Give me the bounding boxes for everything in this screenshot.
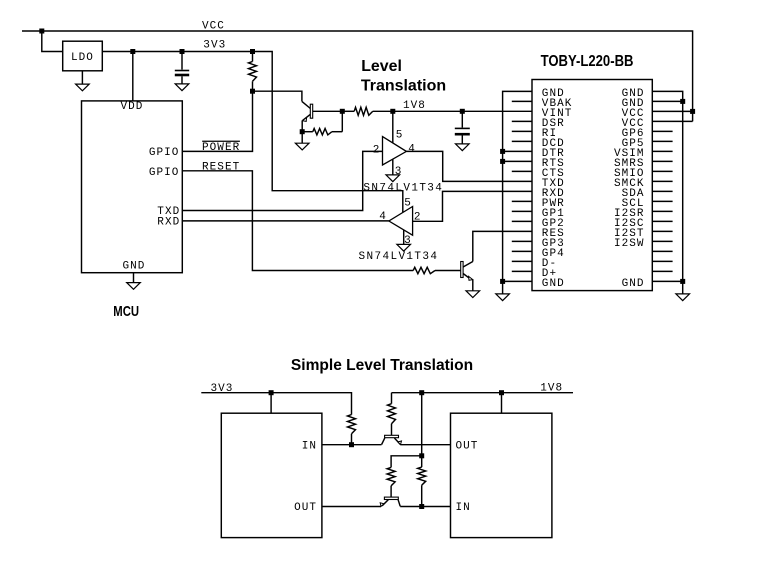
ground under U1: [386, 175, 400, 182]
wire OUT 1V8 side: [401, 444, 451, 446]
wire R6 top link: [392, 392, 422, 394]
svg-text:VDD: VDD: [121, 101, 143, 113]
wire U1 output to TOBY TXD: [406, 151, 532, 181]
wire 1V8 rail bottom: [422, 392, 573, 394]
wire MCU TXD to U1 input: [182, 151, 382, 210]
pin left 14 GP2 stub: [512, 220, 532, 222]
wire U2 pin3 ground lead: [403, 230, 405, 245]
wire TOBY RXD to U2 input: [413, 191, 532, 221]
wire VCC rail: [22, 31, 693, 121]
wire 1V8 rail: [393, 110, 532, 112]
wire U1 pin5 supply: [392, 111, 394, 143]
wire VCC pin4: [652, 120, 692, 122]
wire RESET net: [182, 171, 413, 271]
wire Q1 base: [253, 91, 302, 101]
wire collector to R2: [341, 111, 343, 131]
pin right 5 stub: [652, 130, 672, 132]
pin left 13 GP1 stub: [512, 210, 532, 212]
wire RTS to bus: [503, 160, 532, 162]
svg-text:GND: GND: [123, 260, 145, 272]
wire VDD drop: [132, 52, 134, 101]
transistor Q3: [385, 435, 399, 437]
resistor R7: [391, 456, 422, 468]
svg-text:5: 5: [396, 130, 403, 142]
svg-text:OUT: OUT: [456, 440, 478, 452]
wire 1V8 drop center: [421, 393, 423, 456]
svg-text:5: 5: [404, 197, 411, 209]
node 1V8-rightbox junction: [499, 390, 504, 395]
node bus-RTS junction: [500, 159, 505, 164]
node bus-GND junction: [500, 279, 505, 284]
wire TOBY left GND bus: [503, 91, 532, 281]
pin right 13 stub: [652, 210, 672, 212]
wire TOBY right GND bus: [652, 91, 682, 281]
wire IN 1V8 side: [400, 506, 450, 508]
wire drop to right box: [501, 393, 503, 414]
wire right GND2 to bus: [652, 100, 682, 102]
resistor R4 base: [413, 267, 435, 273]
svg-text:SN74LV1T34: SN74LV1T34: [359, 251, 438, 263]
svg-text:POWER: POWER: [202, 142, 240, 154]
svg-text:1V8: 1V8: [403, 100, 425, 112]
svg-text:GPIO: GPIO: [149, 167, 179, 179]
node drop junction: [419, 453, 424, 458]
wire VCC pin3: [652, 110, 692, 112]
ground under MCU: [133, 273, 135, 283]
MCU box: [82, 101, 183, 273]
resistor R3 series: [342, 110, 354, 112]
svg-text:Simple Level Translation: Simple Level Translation: [291, 357, 473, 374]
svg-text:VCC: VCC: [202, 21, 224, 33]
resistor R5: [348, 415, 356, 434]
transistor Q4: [384, 497, 398, 499]
voltage regulator LDO: [63, 41, 103, 71]
wire LDO input: [42, 31, 63, 52]
pin right 18 stub: [652, 260, 672, 262]
pin left 16 GP3 stub: [512, 240, 532, 242]
wire U2 output to MCU RXD: [182, 220, 389, 222]
pin left 18 D- stub: [512, 260, 532, 262]
ground under LDO: [81, 71, 83, 84]
svg-text:RXD: RXD: [157, 217, 179, 229]
pin left 2 VBAK stub: [512, 100, 532, 102]
wire OUT 3V3 side: [322, 506, 381, 508]
svg-text:OUT: OUT: [294, 502, 316, 514]
ground under right bus: [682, 281, 684, 294]
resistor R6: [391, 393, 393, 404]
pin right 15 stub: [652, 230, 672, 232]
node R1-base junction: [250, 89, 255, 94]
node VCC-LDO junction: [39, 29, 44, 34]
ground under Q2: [472, 280, 474, 291]
module box TOBY: [532, 80, 652, 291]
wire 3V3 rail bottom: [201, 393, 351, 415]
svg-text:IN: IN: [456, 502, 470, 514]
node 1V8-R6 junction: [419, 390, 424, 395]
svg-text:GND: GND: [542, 278, 564, 290]
wire Q1 collector: [313, 110, 343, 112]
pin left 9 CTS stub: [512, 170, 532, 172]
pin right 6 stub: [652, 140, 672, 142]
svg-text:LDO: LDO: [71, 52, 93, 64]
node 3V3-VDD junction: [130, 49, 135, 54]
wire R4 to Q2 base: [435, 270, 461, 272]
svg-text:Translation: Translation: [361, 77, 446, 94]
right box 1V8 device: [451, 413, 552, 537]
wire POWER net: [182, 91, 252, 151]
wire U1 pin3 ground lead: [392, 159, 394, 175]
svg-text:3V3: 3V3: [203, 40, 225, 52]
transistor Q2: [461, 262, 463, 278]
ground under Q1: [301, 132, 303, 144]
node R8-IN junction: [419, 504, 424, 509]
ground under U2: [397, 244, 411, 251]
svg-text:SN74LV1T34: SN74LV1T34: [363, 183, 442, 195]
pin left 19 D+ stub: [512, 270, 532, 272]
wire Q2 collector to TOBY RES: [473, 231, 532, 261]
ground under C1: [175, 84, 189, 91]
left box 3V3 device: [221, 413, 322, 537]
pin right 8 stub: [652, 160, 672, 162]
pin right 9 stub: [652, 170, 672, 172]
pin right 19 stub: [652, 270, 672, 272]
svg-text:IN: IN: [302, 440, 316, 452]
resistor R8: [421, 456, 423, 467]
pin right 16 stub: [652, 240, 672, 242]
pin left 4 DSR stub: [512, 120, 532, 122]
capacitor C1: [181, 52, 183, 70]
node rbus-GND2 junction: [680, 99, 685, 104]
wire 3V3 rail: [102, 52, 403, 213]
transistor Q1: [302, 101, 311, 108]
svg-text:4: 4: [408, 144, 415, 156]
pin left 6 DCD stub: [512, 140, 532, 142]
node Q1 emitter junction: [300, 129, 305, 134]
svg-text:3V3: 3V3: [211, 383, 233, 395]
op-amp buffer U1: [383, 137, 407, 165]
capacitor C2: [461, 111, 463, 127]
pin right 17 stub: [652, 250, 672, 252]
svg-text:2: 2: [373, 145, 380, 157]
node rbus-GND junction: [680, 279, 685, 284]
node 1V8 junction: [390, 109, 395, 114]
svg-text:Level: Level: [361, 58, 402, 75]
pin left 17 GP4 stub: [512, 250, 532, 252]
node 1V8-C2 junction: [460, 109, 465, 114]
svg-text:GND: GND: [622, 278, 644, 290]
svg-text:MCU: MCU: [113, 303, 139, 320]
wire DTR to bus: [503, 150, 532, 152]
node 3V3-leftbox junction: [269, 390, 274, 395]
pin left 5 RI stub: [512, 130, 532, 132]
wire drop to left box: [270, 393, 272, 414]
node VCC rail junction: [690, 109, 695, 114]
svg-text:I2SW: I2SW: [614, 238, 644, 250]
node bus-DTR junction: [500, 149, 505, 154]
pin right 10 stub: [652, 180, 672, 182]
pin right 7 stub: [652, 150, 672, 152]
node 3V3-C1 junction: [180, 49, 185, 54]
node 3V3-R1 junction: [250, 49, 255, 54]
node Q1 collector junction: [340, 109, 345, 114]
svg-text:1V8: 1V8: [540, 383, 562, 395]
ground under left bus: [502, 281, 504, 294]
svg-text:GPIO: GPIO: [149, 147, 179, 159]
svg-text:RESET: RESET: [202, 161, 240, 173]
op-amp buffer U2: [389, 207, 413, 236]
pin right 11 stub: [652, 190, 672, 192]
ground under C2: [456, 144, 470, 151]
wire IN 3V3 side: [322, 444, 382, 446]
pin right 12 stub: [652, 200, 672, 202]
svg-text:TOBY-L220-BB: TOBY-L220-BB: [541, 53, 634, 70]
pin right 14 stub: [652, 220, 672, 222]
pin left 12 PWR stub: [512, 200, 532, 202]
resistor R1 pull-up: [252, 52, 254, 62]
resistor R2: [302, 131, 313, 133]
node R5-IN junction: [349, 442, 354, 447]
